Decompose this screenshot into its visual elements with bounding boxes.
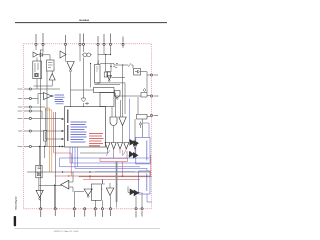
blue box shoot-through upper xyxy=(136,137,150,164)
op-amp U3 (error amp, points down with bubble) xyxy=(67,62,75,70)
page number 4 (rotated, bold) xyxy=(14,216,16,226)
wire OFS down to Q1 xyxy=(82,58,84,107)
orange wire 2 xyxy=(51,110,53,172)
wire EN stub down xyxy=(65,46,67,62)
block bootstrap diode xyxy=(134,69,141,76)
wire fan red xyxy=(120,149,135,155)
dark bus 2 xyxy=(79,176,152,178)
wire VCC stub down xyxy=(35,46,37,50)
block phase detect xyxy=(137,114,148,119)
block ramp generator (tall narrow) xyxy=(95,65,101,84)
wire fault block down xyxy=(34,79,53,89)
wire PHASE link xyxy=(147,116,150,118)
junction dots top-center xyxy=(105,54,106,55)
blue bus 1 xyxy=(60,157,150,159)
dark wire vertical d xyxy=(45,108,47,131)
wire ref to right xyxy=(39,185,62,207)
red bus box xyxy=(100,158,128,161)
wire PVCC stub down xyxy=(40,46,43,50)
pin COMP (left) xyxy=(29,110,31,112)
pin PVCC_L (bottom) xyxy=(141,208,143,210)
op-amp U14 (points down) xyxy=(106,188,114,196)
wire G3 output down (blue) xyxy=(129,99,131,143)
orange wire 1 xyxy=(49,108,51,172)
top pin labels (rotated text smudges) xyxy=(36,33,123,43)
wire U14 to PGND xyxy=(109,183,112,208)
pin ISEN (left) xyxy=(29,145,31,147)
current mirror M1 xyxy=(104,72,107,77)
pin RGND2 (bottom) xyxy=(54,208,56,210)
symbol inside fault block xyxy=(35,73,39,77)
wire OCSET arrow into block xyxy=(32,117,62,119)
op-amp U4 (points down, bubble) xyxy=(107,76,112,80)
pin FS (top) xyxy=(97,43,99,45)
pin PHASE (right) xyxy=(150,114,152,116)
block oscillator xyxy=(47,60,55,71)
op-amp U1 (POR comparator) xyxy=(33,52,38,57)
op-amp U12 (points left) xyxy=(61,180,69,189)
oscillator wave symbol xyxy=(113,66,117,68)
op-amp U13 (points down, bubble) xyxy=(84,189,92,195)
wire ISEN right long xyxy=(32,146,62,148)
junction dot clk xyxy=(110,66,111,67)
wire LGATE drivers to pins xyxy=(128,186,142,207)
pin GND (bottom) xyxy=(73,208,75,210)
wire ILIM arrow into block xyxy=(32,130,62,132)
svg-text:Block Diagram: Block Diagram xyxy=(15,196,17,210)
block pwm logic lower xyxy=(100,93,114,107)
blue drop right xyxy=(143,123,149,137)
wire U3 to pwm xyxy=(71,90,94,107)
wire gray bus to pins xyxy=(116,202,118,208)
red wire vertical xyxy=(53,112,55,153)
wire U3 down xyxy=(70,72,72,90)
wire top long vertical A xyxy=(40,50,42,208)
reference symbol D1 xyxy=(40,53,43,57)
op-amp U11 (buffer to VDIFF, points down) xyxy=(36,190,43,197)
wire right loop down xyxy=(138,97,143,137)
pin OCSET (left) xyxy=(29,117,31,119)
op-amp U5 (error amplifier left) xyxy=(44,93,52,100)
wire VREF stub down xyxy=(80,46,84,62)
gate G2 (latch) xyxy=(110,117,117,126)
dark wire vertical c xyxy=(54,112,56,208)
pin PGND (bottom) xyxy=(109,208,111,210)
wires block to pins xyxy=(95,180,102,208)
pin UGATE (right) xyxy=(150,95,152,97)
pin OFS (top) xyxy=(82,43,84,45)
pin VSEN- (bottom) xyxy=(84,208,86,210)
wire FS stub down xyxy=(97,46,99,64)
rotated text MONITOR AND CONTROL xyxy=(67,110,69,142)
junction circle right xyxy=(139,123,141,125)
wire U11 to VDIFF pin xyxy=(40,200,41,208)
comparator row: U6 xyxy=(105,143,110,150)
pin VCC (top) xyxy=(35,43,37,45)
wire to BOOT xyxy=(132,65,134,69)
pin PGOOD (top) xyxy=(122,43,124,45)
block soft-start / fault logic (rotated text block) xyxy=(33,61,42,79)
pin VSEN (left) xyxy=(29,97,31,99)
junction dots on ISEN wire xyxy=(39,146,40,147)
current mirror M2 xyxy=(108,72,111,77)
driver pair lower (LGATE drivers) xyxy=(130,189,139,196)
wires U12 xyxy=(69,172,73,192)
wire U1 output xyxy=(38,54,40,56)
block level shifter xyxy=(141,93,147,98)
wire mirror outputs right xyxy=(112,77,126,79)
chip boundary dashed box xyxy=(24,44,152,209)
switch S1 on PGOOD line xyxy=(122,46,124,48)
symbol inside reference block xyxy=(37,172,40,175)
gate G1 (and w/ bubble) xyxy=(115,91,121,98)
comparator pair top-center xyxy=(60,51,66,58)
blue corner mid xyxy=(103,179,106,184)
pin BOOT (right) xyxy=(150,74,152,76)
blue bus right segment xyxy=(95,171,135,173)
wire UGATE pin link xyxy=(114,95,150,98)
op-amp U2 (buffer, points up) xyxy=(49,74,55,81)
wire FB/COMP into center xyxy=(32,107,45,118)
red text list (signals) xyxy=(89,134,104,146)
wire gate outputs down xyxy=(114,126,123,143)
block bottom right of U13 xyxy=(91,184,101,200)
wire VSEN right xyxy=(32,94,44,105)
right pin labels xyxy=(154,75,159,116)
wire into pwm box top xyxy=(90,64,92,88)
pin VSEN+ (bottom) xyxy=(94,208,96,210)
wire down to ref block xyxy=(40,147,45,166)
current source symbol I1 (mirror pair) xyxy=(83,53,87,57)
pin CLKOUT (top) xyxy=(109,43,111,45)
block reference small xyxy=(36,165,42,178)
wires U13 xyxy=(74,192,84,208)
blue drops from block bottom xyxy=(73,147,78,167)
pin RGND (left) xyxy=(29,88,31,90)
block central monitor and control xyxy=(65,107,106,147)
wire fault block up xyxy=(37,50,50,61)
left pin labels xyxy=(18,89,23,147)
resistor R1 (vertical) xyxy=(44,131,47,142)
svg-text:FN9172.4 | April 11, 2006: FN9172.4 | April 11, 2006 xyxy=(54,230,79,232)
blue box shoot-through lower xyxy=(139,171,150,194)
wire RGND right xyxy=(32,88,60,90)
comparator row: U8 xyxy=(118,143,123,150)
page header rule xyxy=(15,22,167,24)
wire CLKOUT down xyxy=(110,46,113,72)
red wire drops xyxy=(55,153,141,179)
orange bends top xyxy=(45,108,52,110)
pin FB (left) xyxy=(29,106,31,108)
blue wire bottom right xyxy=(147,194,152,202)
wire BOOT to level shifter xyxy=(146,75,148,93)
text inside fault logic block xyxy=(35,63,38,72)
blue text list (fault conditions) xyxy=(71,122,88,142)
dark bus long xyxy=(27,171,150,173)
wire cluster center-top xyxy=(98,60,133,72)
pin ILIM (left) xyxy=(29,130,31,132)
wire verticals into gates xyxy=(112,93,121,118)
pin VREF (top) xyxy=(79,43,81,45)
capacitor label above block xyxy=(85,102,89,105)
comparator row: U10 xyxy=(133,143,138,150)
footer rule xyxy=(15,228,160,230)
blue bus 2 xyxy=(70,147,149,163)
pin VDIFF (bottom) xyxy=(40,208,42,210)
blue bus 3 xyxy=(60,158,141,167)
comparator row: U7 xyxy=(111,143,116,150)
pin SYNC (top) xyxy=(103,43,105,45)
wire fan from comparators (dark) xyxy=(80,149,127,158)
block pwm logic upper xyxy=(94,88,115,93)
wire ref block to U11 xyxy=(38,178,40,190)
gate G3 (triangle down) xyxy=(119,117,126,126)
comparator row: U9 xyxy=(124,143,129,150)
note blue annotation text xyxy=(55,95,65,104)
wire arrow 3 into block xyxy=(45,138,62,140)
pin VOUT (bottom) xyxy=(101,208,103,210)
blue bus 4 xyxy=(75,147,147,171)
wire to U10 xyxy=(134,119,136,143)
gray power bus vertical xyxy=(116,162,118,203)
bottom pin labels xyxy=(41,211,142,218)
pin PVCC (top) xyxy=(42,43,44,45)
svg-text:ISL6540A: ISL6540A xyxy=(79,19,89,22)
wire long vertical B xyxy=(46,71,48,147)
pin EN (top) xyxy=(64,43,66,45)
pin LGATE (bottom) xyxy=(135,208,137,210)
wire diode to BOOT pin xyxy=(141,72,151,75)
wire SYNC down xyxy=(98,46,111,72)
driver pair upper (UGATE drivers) xyxy=(130,140,139,147)
wire bus y82.5 xyxy=(95,83,126,114)
red bus long xyxy=(55,175,151,177)
red vertical right border area xyxy=(150,155,152,176)
wire osc to U2 xyxy=(51,71,53,74)
transistor symbol Q1 xyxy=(82,92,86,101)
wire fan blue xyxy=(106,150,131,157)
